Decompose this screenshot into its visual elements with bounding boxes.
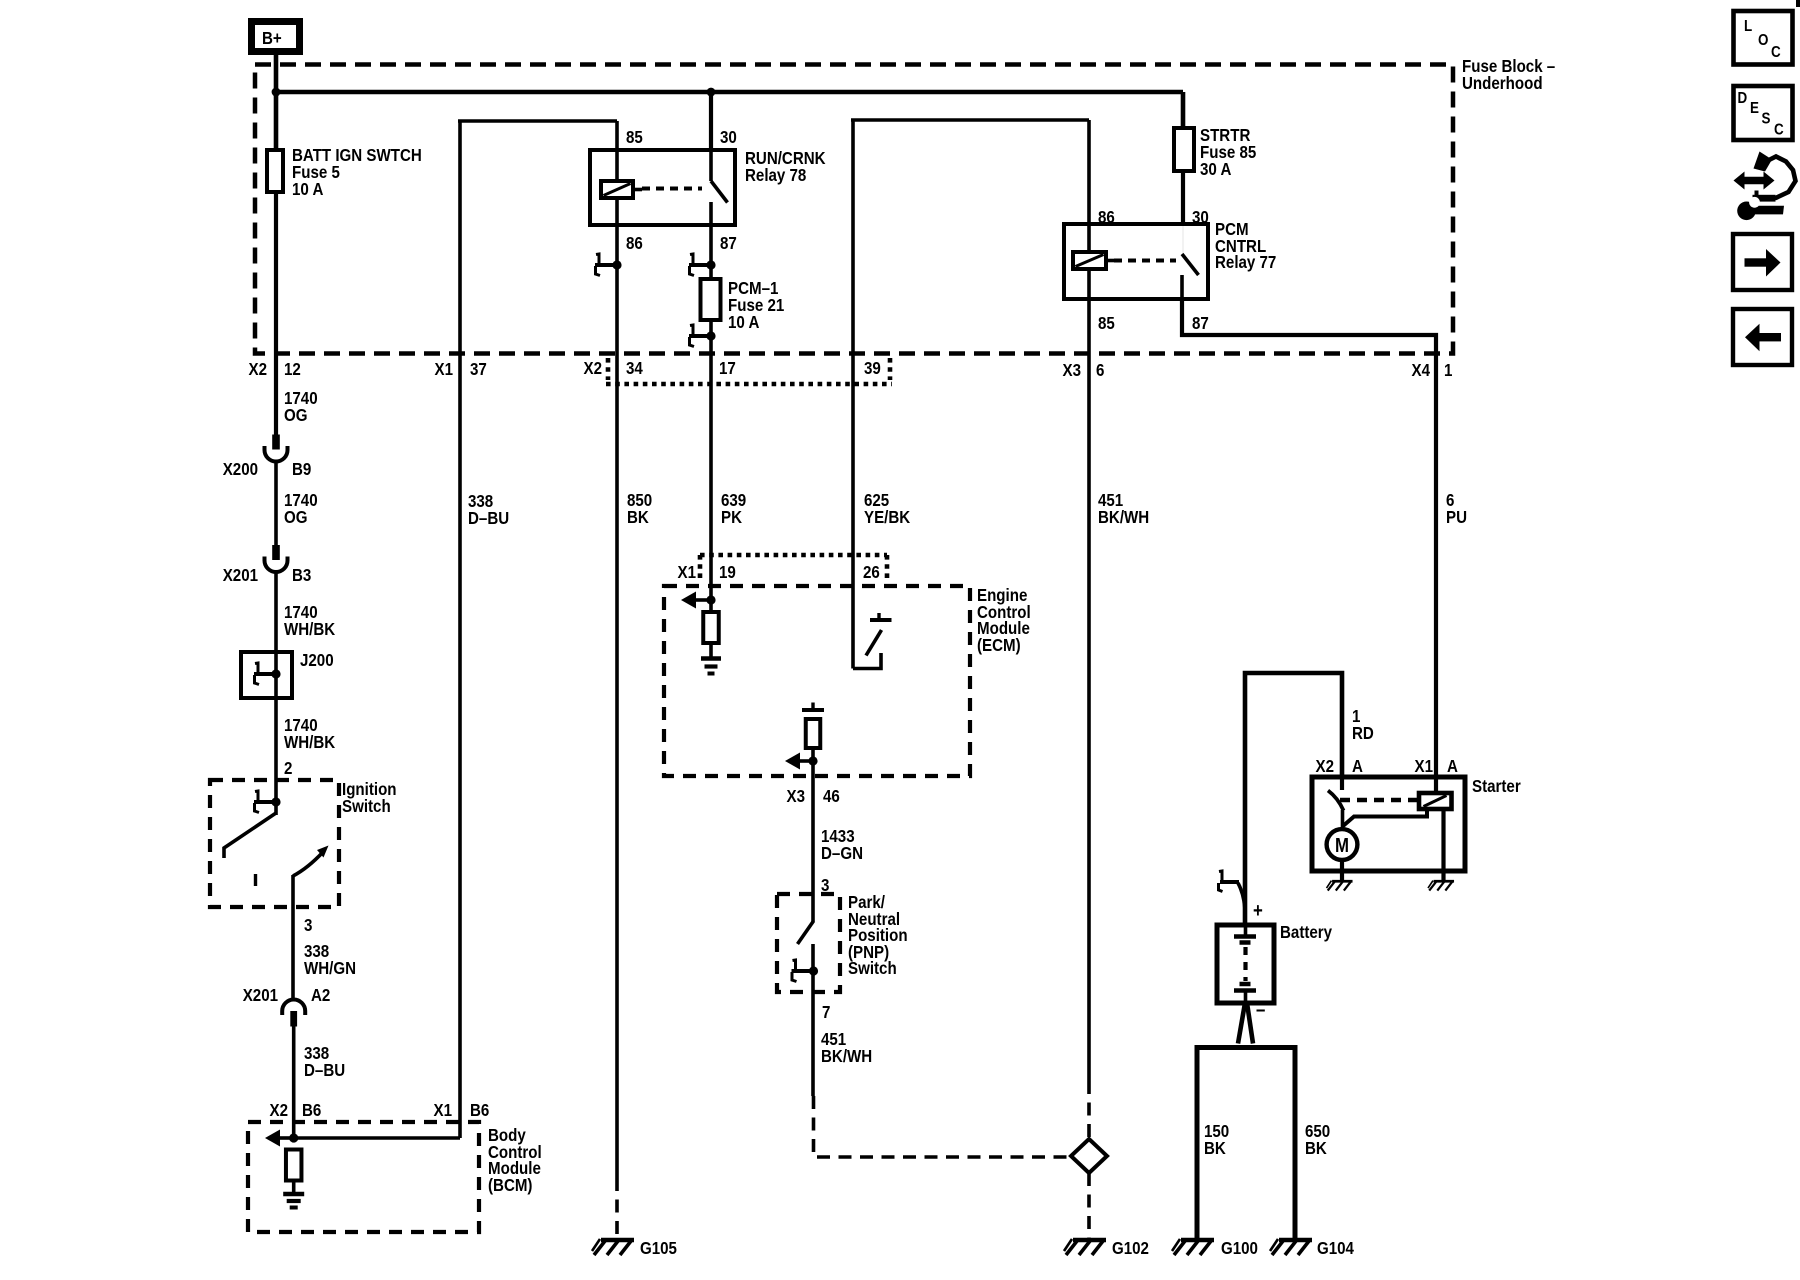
svg-text:OG: OG: [284, 507, 308, 528]
svg-text:A2: A2: [311, 985, 330, 1006]
svg-text:Relay 77: Relay 77: [1215, 252, 1276, 273]
svg-text:X1: X1: [435, 359, 453, 380]
svg-text:Starter: Starter: [1472, 776, 1521, 797]
svg-text:+: +: [1253, 899, 1263, 922]
svg-text:(ECM): (ECM): [977, 635, 1021, 656]
svg-text:YE/BK: YE/BK: [864, 507, 910, 528]
svg-text:C: C: [1774, 122, 1784, 139]
svg-text:X201: X201: [223, 565, 258, 586]
svg-text:WH/BK: WH/BK: [284, 619, 335, 640]
svg-text:Switch: Switch: [342, 796, 391, 817]
svg-text:86: 86: [626, 233, 643, 254]
svg-text:B6: B6: [470, 1100, 489, 1121]
svg-text:X3: X3: [1063, 360, 1081, 381]
svg-text:87: 87: [1192, 313, 1209, 334]
svg-text:86: 86: [1098, 207, 1115, 228]
svg-text:A: A: [1352, 756, 1363, 777]
svg-text:46: 46: [823, 786, 840, 807]
svg-text:B6: B6: [302, 1100, 321, 1121]
svg-text:34: 34: [626, 358, 643, 379]
svg-text:E: E: [1750, 100, 1759, 117]
svg-text:X2: X2: [270, 1100, 288, 1121]
svg-text:Battery: Battery: [1280, 922, 1333, 943]
svg-text:D–GN: D–GN: [821, 843, 863, 864]
svg-text:3: 3: [304, 915, 312, 936]
svg-text:19: 19: [719, 562, 736, 583]
svg-text:D–BU: D–BU: [468, 508, 509, 529]
svg-text:BK/WH: BK/WH: [821, 1046, 872, 1067]
svg-text:G100: G100: [1221, 1238, 1258, 1259]
svg-text:G104: G104: [1317, 1238, 1355, 1259]
svg-text:PU: PU: [1446, 507, 1467, 528]
svg-text:2: 2: [284, 758, 292, 779]
svg-text:BK: BK: [627, 507, 649, 528]
svg-text:X2: X2: [584, 358, 602, 379]
svg-text:D–BU: D–BU: [304, 1060, 345, 1081]
svg-text:30: 30: [1192, 207, 1209, 228]
svg-text:–: –: [1256, 998, 1265, 1021]
svg-text:X200: X200: [223, 459, 258, 480]
svg-text:Switch: Switch: [848, 958, 897, 979]
svg-text:BK/WH: BK/WH: [1098, 507, 1149, 528]
svg-text:X2: X2: [1316, 756, 1334, 777]
svg-text:30 A: 30 A: [1200, 159, 1231, 180]
svg-text:B9: B9: [292, 459, 311, 480]
svg-text:6: 6: [1096, 360, 1104, 381]
svg-text:17: 17: [719, 358, 736, 379]
svg-text:39: 39: [864, 358, 881, 379]
svg-text:O: O: [1758, 32, 1768, 49]
svg-text:Relay 78: Relay 78: [745, 165, 806, 186]
svg-text:87: 87: [720, 233, 737, 254]
svg-text:BK: BK: [1305, 1138, 1327, 1159]
svg-text:D: D: [1738, 90, 1748, 107]
svg-text:PK: PK: [721, 507, 742, 528]
svg-text:X201: X201: [243, 985, 278, 1006]
svg-text:L: L: [1744, 18, 1752, 35]
svg-text:C: C: [1771, 44, 1781, 61]
svg-text:RD: RD: [1352, 723, 1374, 744]
svg-text:X2: X2: [249, 359, 267, 380]
svg-text:Underhood: Underhood: [1462, 73, 1543, 94]
svg-text:M: M: [1335, 834, 1349, 857]
svg-text:10 A: 10 A: [728, 312, 759, 333]
svg-text:1: 1: [1444, 360, 1452, 381]
svg-text:85: 85: [1098, 313, 1115, 334]
svg-text:J200: J200: [300, 650, 334, 671]
svg-text:26: 26: [863, 562, 880, 583]
svg-text:WH/BK: WH/BK: [284, 732, 335, 753]
svg-text:X1: X1: [1415, 756, 1433, 777]
svg-text:WH/GN: WH/GN: [304, 958, 356, 979]
svg-text:10 A: 10 A: [292, 179, 323, 200]
svg-text:S: S: [1762, 111, 1771, 128]
svg-text:G102: G102: [1112, 1238, 1149, 1259]
svg-text:G105: G105: [640, 1238, 677, 1259]
svg-text:B3: B3: [292, 565, 311, 586]
svg-text:X1: X1: [678, 562, 696, 583]
svg-text:X3: X3: [787, 786, 805, 807]
svg-text:37: 37: [470, 359, 487, 380]
svg-text:12: 12: [284, 359, 301, 380]
svg-text:(BCM): (BCM): [488, 1175, 532, 1196]
svg-text:X1: X1: [434, 1100, 452, 1121]
svg-text:B+: B+: [262, 28, 282, 49]
svg-text:85: 85: [626, 127, 643, 148]
svg-text:BK: BK: [1204, 1138, 1226, 1159]
svg-text:X4: X4: [1412, 360, 1431, 381]
svg-text:A: A: [1447, 756, 1458, 777]
svg-text:30: 30: [720, 127, 737, 148]
svg-text:7: 7: [822, 1002, 830, 1023]
svg-text:OG: OG: [284, 405, 308, 426]
